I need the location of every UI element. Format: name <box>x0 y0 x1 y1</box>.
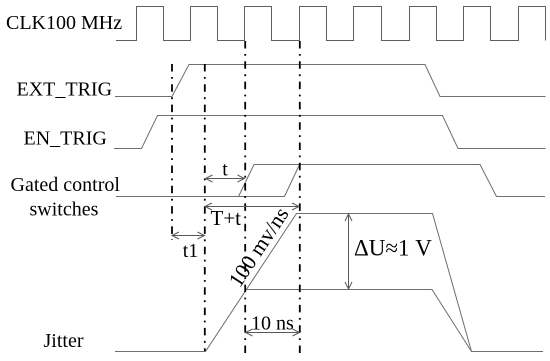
wire Gated control late rising edge <box>285 165 300 197</box>
annotation delta-U arrow <box>345 214 352 289</box>
svg-text:t1: t1 <box>183 240 199 262</box>
annotation t1 arrow <box>172 232 205 239</box>
node marker line 1 (x=172) <box>171 64 173 240</box>
wire EN_TRIG waveform <box>114 116 546 149</box>
svg-text:t: t <box>222 159 228 181</box>
wire EXT_TRIG waveform <box>115 65 546 97</box>
svg-text:ΔU≈1 V: ΔU≈1 V <box>354 236 432 261</box>
wire Jitter low + ramp + top segment <box>115 214 543 352</box>
svg-text:Gated control: Gated control <box>11 174 121 196</box>
wire Jitter mid-level branch <box>246 290 472 352</box>
wire Gated control early rising edge <box>239 165 255 197</box>
wire Gated control high/fall/low segment <box>254 165 545 197</box>
svg-text:switches: switches <box>30 199 99 221</box>
wire CLK waveform <box>116 7 546 41</box>
annotation t arrow <box>206 175 245 182</box>
svg-text:T+t: T+t <box>211 206 242 230</box>
node marker line 3 (x=245) <box>244 41 246 355</box>
svg-text:10 ns: 10 ns <box>251 313 294 335</box>
svg-text:Jitter: Jitter <box>44 330 84 352</box>
svg-text:EN_TRIG: EN_TRIG <box>24 128 107 150</box>
annotation 10 ns arrow <box>246 329 300 336</box>
svg-text:CLK100 MHz: CLK100 MHz <box>6 12 122 34</box>
node marker line 4 (x=300) <box>299 41 301 355</box>
node marker line 2 (x=205) <box>204 64 206 351</box>
svg-text:EXT_TRIG: EXT_TRIG <box>17 79 113 101</box>
wire Gated control low segment <box>116 196 285 198</box>
annotation T+t arrow <box>205 203 299 210</box>
